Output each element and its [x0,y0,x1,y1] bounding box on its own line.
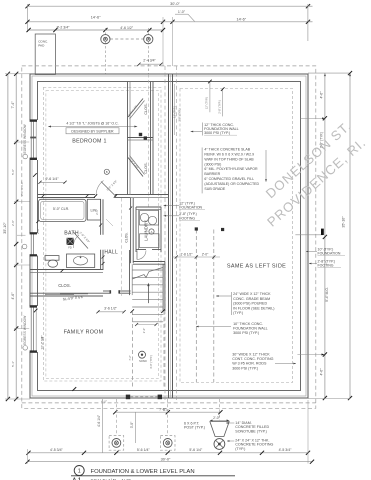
post footing square 1 [109,436,124,451]
footing width dim line right unit [222,89,224,117]
stair up arrow [147,286,149,304]
family room egress window [29,306,38,352]
hall-laundry wall [130,198,132,263]
svg-text:2'-8" X 4'-6": 2'-8" X 4'-6" [20,181,24,196]
dim line 8'-2 3/4" / 4'-6 1/2" top row3 [29,29,163,31]
svg-text:4'-5 3/4": 4'-5 3/4" [50,448,64,452]
svg-text:WWF IN TOP THIRD OF SLAB: WWF IN TOP THIRD OF SLAB [204,157,254,161]
patio door jambs in south wall [126,395,130,400]
svg-text:FOUNDATION: FOUNDATION [318,251,341,255]
laundry appliances [140,211,159,226]
svg-text:FOUNDATION: FOUNDATION [179,206,202,210]
svg-text:POST (TYP.): POST (TYP.) [184,426,205,430]
svg-text:CLOS.: CLOS. [144,162,148,173]
note block B bracket [201,148,203,194]
stair treads [132,269,163,271]
svg-text:FOUNDATION & LOWER LEVEL PLAN: FOUNDATION & LOWER LEVEL PLAN [91,469,195,475]
beam dashed drop through closet column [147,74,149,207]
bottom extension lines [27,449,29,464]
laundry room walls [136,206,161,208]
toilet [45,256,59,261]
svg-text:2'-0": 2'-0" [36,228,40,234]
svg-text:A: A [151,230,153,234]
svg-text:(TYP.): (TYP.) [233,311,243,315]
bath wall tick 1 [99,224,102,227]
svg-text:BATH: BATH [64,230,79,236]
title underline [71,475,235,477]
svg-text:3'-0": 3'-0" [130,421,134,428]
svg-text:4'-0": 4'-0" [101,400,107,404]
note block C leader [216,295,231,297]
bath window [29,233,38,256]
beam dashed line below stairs left [132,311,134,388]
svg-text:6" COMPACTED GRAVEL FILL: 6" COMPACTED GRAVEL FILL [204,177,254,181]
window tag circle bedroom [23,154,28,159]
masonry opening arrow lower [322,353,325,355]
svg-text:2'-6": 2'-6" [95,209,99,215]
right unit dim row 1'-8 1/2" / 2'-0" [173,256,221,258]
svg-text:3000 PSI (TYP.): 3000 PSI (TYP.) [233,331,259,335]
svg-text:CLOS.: CLOS. [125,232,129,242]
svg-text:30'-0": 30'-0" [170,2,180,6]
exterior foundation wall outer face [30,74,308,398]
joist note arrow line [48,126,137,128]
post symbol 2 [163,439,172,448]
closet 1 angled door wall [128,99,143,118]
svg-text:W/ 3 #5 HOR. RODS: W/ 3 #5 HOR. RODS [232,362,267,366]
masonry opening tie line lower [297,354,323,356]
note foundation width leader left [164,205,180,207]
bedroom door jamb ticks [94,194,97,197]
stairwell top wall [133,261,165,263]
svg-text:7'-6": 7'-6" [159,407,167,411]
dashed line between deck posts [110,38,144,40]
svg-text:4'-6": 4'-6" [320,91,324,99]
dim line 30'-0" overall top [28,5,309,7]
post symbol 1 [112,439,121,448]
deck post symbol P1 [101,35,110,44]
svg-text:5'-6 1/4": 5'-6 1/4" [189,448,203,452]
closet west wall [127,82,129,195]
closet south wall with sliders [30,292,103,294]
svg-text:SONOTUBE (TYP.): SONOTUBE (TYP.) [235,429,266,433]
svg-text:EGRESS WINDOW: EGRESS WINDOW [23,315,27,345]
svg-text:10" THICK CONC.: 10" THICK CONC. [233,322,263,326]
right dim tie line at bottom [308,398,350,400]
svg-text:7'-2": 7'-2" [128,355,132,360]
extension line party wall top [162,17,164,66]
bath tub [39,199,87,221]
svg-text:6" MIL. POLYETHYLENE VAPOR: 6" MIL. POLYETHYLENE VAPOR [204,167,258,171]
footing outline dashed [22,66,316,408]
masonry opening tie line upper [295,234,323,236]
svg-text:7'-4": 7'-4" [11,101,15,109]
svg-text:5'-6 1/4": 5'-6 1/4" [137,448,151,452]
bottom dim line 7'-6" [115,411,220,413]
dim line left column segments [15,74,17,399]
sonotube note leader [226,422,234,424]
svg-text:EGRESS WINDOW: EGRESS WINDOW [23,123,27,153]
svg-text:12" (TYP.): 12" (TYP.) [205,97,209,109]
window tag circle family room [23,346,28,351]
svg-text:24" WIDE X 12" THICK: 24" WIDE X 12" THICK [233,292,271,296]
bath east wall [100,199,102,235]
svg-text:5'-0": 5'-0" [11,169,15,175]
bath south wall [30,269,103,271]
note block D leader [196,326,231,328]
party wall footing dashed lines [164,66,166,403]
svg-text:SONO: SONO [139,359,147,363]
stair bottom dim [137,324,156,326]
wall tick at bedroom wall [33,173,37,177]
right dim line inner [324,73,326,398]
stair break line [132,268,163,280]
party wall dim labels rotated [174,84,176,135]
masonry opening end bar upper [321,229,324,235]
svg-text:PAD: PAD [38,44,45,48]
svg-text:8'-2 3/4": 8'-2 3/4" [57,26,71,30]
svg-text:(3000 PSI): (3000 PSI) [204,162,221,166]
laundry door arc [137,251,146,260]
svg-text:BEDROOM 1: BEDROOM 1 [72,138,107,144]
svg-text:DESIGNED BY SUPPLIER: DESIGNED BY SUPPLIER [71,130,114,134]
svg-text:4'-6": 4'-6" [11,292,15,300]
extension line top-right [307,4,309,41]
svg-text:14'-6": 14'-6" [236,17,246,21]
svg-text:4'-6": 4'-6" [320,368,324,376]
svg-text:(ADJUSTABLE) OR COMPACTED: (ADJUSTABLE) OR COMPACTED [204,182,259,186]
bedroom south wall west segment [38,194,96,196]
bedroom egress window [29,120,38,160]
svg-text:9'-4" M.O.: 9'-4" M.O. [325,287,329,302]
svg-text:(TYP.): (TYP.) [235,447,245,451]
svg-text:10'-7 3/4": 10'-7 3/4" [41,335,45,350]
svg-text:HALL: HALL [104,249,118,255]
svg-text:B: B [106,170,108,174]
deck post P2 drop line [148,28,150,74]
hall south wall / family room opening jambs [103,290,110,292]
footing second dashed line bottom [22,402,316,404]
sonotube trapezoid [210,422,229,437]
laundry sink box [140,234,160,248]
closet east wall [150,82,152,195]
svg-text:5'-4": 5'-4" [11,361,15,367]
exterior wall inner face [38,82,301,391]
footing note leader [227,440,234,442]
svg-text:2'-8": 2'-8" [11,220,15,226]
grade beam dashed line right [213,230,215,383]
note block E leader [275,363,296,365]
bedroom south wall east segment [115,194,131,196]
bath door leaf and swing [73,232,88,249]
note footing width leader left [164,215,180,217]
bedroom door tag circle [104,169,109,174]
bottom dim row1 line [29,452,309,454]
svg-text:SUB GRADE: SUB GRADE [204,187,226,191]
post footing square 2 [160,436,175,451]
bath-hall north wall extension to party wall [131,194,169,196]
wall between closets [128,137,154,139]
post drop dashed lines [115,399,117,436]
right unit slab edge dashed [180,89,293,383]
svg-text:2'-4 3/4": 2'-4 3/4" [143,58,156,62]
stairwell right wall [162,264,164,311]
svg-text:30" WIDE X 12" THICK: 30" WIDE X 12" THICK [232,353,270,357]
svg-text:4'-5 3/4": 4'-5 3/4" [279,448,293,452]
right dim line outer 35'-10" [349,73,351,398]
laundry tag circle [149,229,154,234]
svg-text:2'-0": 2'-0" [202,252,209,256]
right dim extension at top [308,72,350,74]
svg-text:4'-6 1/4": 4'-6 1/4" [97,414,101,427]
bottom dim row2 line 30'-0" [28,461,313,463]
note block A leader [191,131,203,133]
svg-text:30'-0": 30'-0" [161,457,171,461]
left dim extension ticks [14,141,30,143]
left extension line at top wall [5,73,30,75]
extension line top-left [27,4,29,32]
note block B leader arrow [265,150,267,182]
svg-text:35'-10": 35'-10" [3,222,7,234]
bath area wall ticks [42,195,45,198]
svg-text:12" (TYP.): 12" (TYP.) [173,106,177,118]
svg-text:FOOTING: FOOTING [179,216,195,220]
right dim tie line at y118 [301,117,325,119]
vanity with sink [67,254,95,268]
wall thickness dim line right unit [209,81,211,112]
party wall / center foundation wall [168,74,170,398]
svg-text:4'-6 1/2": 4'-6 1/2" [120,26,134,30]
column dot right unit 2 [221,228,224,231]
sono post in family room [139,351,146,358]
wall tick at family room window [34,309,38,313]
grade beam dashed line left [195,230,197,383]
svg-text:LAUNDRY: LAUNDRY [144,220,149,241]
svg-text:2'-8" (TYP.): 2'-8" (TYP.) [217,100,221,114]
svg-text:3000 PSI (TYP.): 3000 PSI (TYP.) [204,131,230,135]
svg-text:5'-0" CLR.: 5'-0" CLR. [53,207,69,211]
svg-text:1'-0": 1'-0" [178,10,186,14]
svg-text:4'-0" (TYP.): 4'-0" (TYP.) [149,355,153,369]
svg-text:CONC. GRADE BEAM: CONC. GRADE BEAM [233,297,270,301]
svg-text:BARRIER: BARRIER [204,172,220,176]
svg-text:2'-0": 2'-0" [213,416,221,420]
svg-text:3'-6 1/2": 3'-6 1/2" [104,307,118,311]
svg-text:FD: FD [68,247,72,250]
svg-text:FOUNDATION WALL: FOUNDATION WALL [233,326,268,330]
bath wall tick 2 [102,256,105,259]
stair width ticks [130,309,134,313]
linen closet [87,199,100,220]
dim line 35'-10" overall left [7,74,9,399]
left unit slab edge dashed [43,87,161,381]
beam dashed line below stairs right [163,311,165,388]
svg-text:9'-6 1/4": 9'-6 1/4" [45,177,59,181]
svg-text:4 1/2" TJI "L" JOISTS @ 16" O.: 4 1/2" TJI "L" JOISTS @ 16" O.C. [66,122,118,126]
family room south wall tick [72,387,76,391]
floor drain symbol [67,238,74,245]
bath window leader tick [17,234,26,236]
bottom dim vertical 3'-0" [134,412,136,443]
svg-text:IN FLOOR (SEE DETAIL): IN FLOOR (SEE DETAIL) [233,306,274,310]
svg-text:2'-8" (TYP.): 2'-8" (TYP.) [177,108,181,121]
dim line 14'-6" + 14'-6" top [28,21,309,23]
exterior wall second line [32,76,306,396]
svg-text:SAME AS LEFT SIDE: SAME AS LEFT SIDE [227,263,286,269]
svg-text:3'-0": 3'-0" [142,328,146,333]
svg-text:(3000 PSI) POURED: (3000 PSI) POURED [233,302,267,306]
svg-text:FOOTING: FOOTING [318,263,334,267]
svg-text:35'-10": 35'-10" [342,216,346,228]
bedroom door leaf and swing [101,182,116,197]
column dot right unit 1 [195,227,198,230]
svg-text:3000 PSI (TYP.): 3000 PSI (TYP.) [232,366,258,370]
sonotube circle [214,439,225,450]
deck post symbol P2 [144,35,153,44]
svg-text:CLOS.: CLOS. [58,283,71,288]
sonotube detail dim 2'-0" [210,419,229,421]
laundry wall footing dashed [121,198,123,296]
svg-text:CLOS.: CLOS. [144,103,148,114]
svg-text:CONT. CONC. FOOTING: CONT. CONC. FOOTING [232,357,273,361]
hall dim leader [106,219,113,226]
concrete pad box [35,34,55,75]
closet 2 angled door wall [128,158,143,177]
stairwell left wall [129,250,131,295]
deck post P1 drop line [104,28,106,74]
title tag circle [74,466,84,476]
bottom dim vertical 4'-6 1/4" [101,399,103,453]
svg-text:14'-6": 14'-6" [91,16,101,20]
designed by supplier box [66,128,119,134]
svg-text:FAMILY ROOM: FAMILY ROOM [64,330,104,336]
svg-text:1'-8 1/2": 1'-8 1/2" [180,252,193,256]
window tag circle bath [22,244,27,249]
svg-text:4" THICK CONCRETE SLAB: 4" THICK CONCRETE SLAB [204,148,250,152]
svg-text:1: 1 [78,469,81,475]
svg-text:REINF. W/ 6 X 6 X W2.9 / W2.9: REINF. W/ 6 X 6 X W2.9 / W2.9 [204,153,254,157]
closet 1 door jambs [139,133,142,136]
